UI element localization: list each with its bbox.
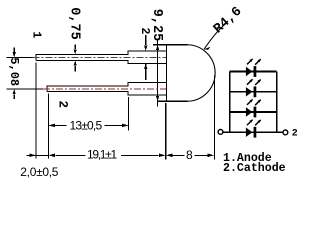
svg-text:13±0,5: 13±0,5: [70, 118, 103, 132]
svg-text:1: 1: [29, 31, 42, 38]
svg-text:19,1±1: 19,1±1: [87, 147, 117, 161]
svg-text:9,25: 9,25: [149, 9, 164, 41]
svg-text:5,08: 5,08: [7, 57, 21, 86]
svg-text:2: 2: [55, 101, 69, 109]
svg-text:2: 2: [292, 128, 298, 139]
svg-text:8: 8: [186, 148, 193, 162]
svg-text:2.Cathode: 2.Cathode: [223, 162, 286, 175]
svg-text:0,75: 0,75: [67, 7, 82, 39]
svg-text:2,0±0,5: 2,0±0,5: [20, 165, 58, 179]
svg-text:2: 2: [138, 28, 151, 35]
